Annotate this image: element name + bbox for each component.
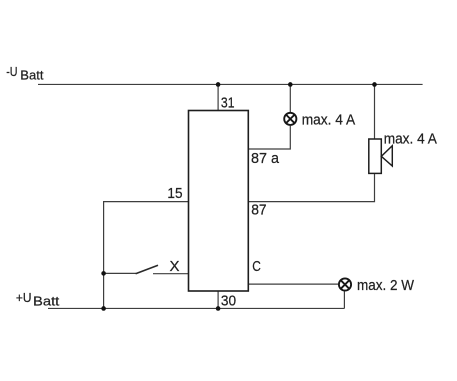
svg-text:30: 30 [221,292,236,309]
svg-text:max. 4 A: max. 4 A [302,112,356,129]
svg-text:-U: -U [6,64,17,79]
svg-text:max. 2 W: max. 2 W [357,277,415,294]
svg-text:max. 4 A: max. 4 A [384,130,437,147]
svg-text:Batt: Batt [20,68,44,82]
svg-text:15: 15 [167,185,182,202]
svg-text:87: 87 [251,201,266,218]
svg-text:Batt: Batt [33,294,60,308]
svg-text:87 a: 87 a [251,150,280,167]
svg-text:+U: +U [16,290,32,305]
svg-text:X: X [170,258,180,275]
svg-text:C: C [252,258,261,275]
svg-text:31: 31 [221,94,235,111]
